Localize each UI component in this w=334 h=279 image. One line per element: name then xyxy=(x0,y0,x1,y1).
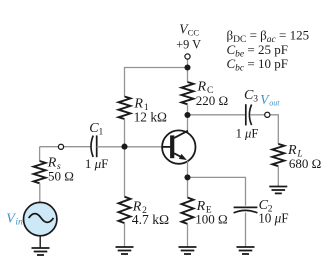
wire: base node down to R2 xyxy=(124,147,126,197)
ground under R2 xyxy=(116,247,134,254)
source Vin (sine source circle) xyxy=(24,202,57,235)
capacitor C1 straight right plate xyxy=(96,135,98,157)
svg-text:+9 V: +9 V xyxy=(176,37,201,51)
sine wave inside Vin xyxy=(29,214,54,223)
svg-text:680 Ω: 680 Ω xyxy=(289,156,321,171)
wire: top rail from R1 branch to VCC junction xyxy=(125,67,188,69)
wire: C1 to base node and on to transistor base xyxy=(97,146,163,148)
wire: R1 top lead xyxy=(124,67,126,97)
resistor RC 220 Ohm xyxy=(182,82,194,104)
wire: RL bottom lead to ground xyxy=(277,166,279,186)
wire: input terminal to Rs corner xyxy=(40,146,59,148)
ground under RE xyxy=(179,247,197,254)
wire: input terminal to C1 xyxy=(64,146,91,148)
wire: R2 bottom to ground xyxy=(124,223,126,247)
ground under Vin xyxy=(32,248,50,255)
transistor emitter stroke with arrow xyxy=(174,153,184,158)
capacitor C2 curved bottom plate xyxy=(234,210,258,213)
resistor RE 100 Ohm xyxy=(182,198,194,224)
wire: emitter node to C2 branch xyxy=(188,177,246,205)
resistor RL 680 Ohm xyxy=(272,144,284,166)
resistor R1 12 kOhm xyxy=(119,97,131,120)
svg-text:1: 1 xyxy=(99,128,104,138)
wire: collector node to transistor collector xyxy=(187,115,189,131)
resistor R2 4.7 kOhm xyxy=(119,197,131,223)
ground under RL xyxy=(269,187,287,194)
svg-text:12 kΩ: 12 kΩ xyxy=(134,110,167,125)
junction node at base xyxy=(121,144,127,150)
transistor base lead xyxy=(162,146,170,148)
svg-text:4.7 kΩ: 4.7 kΩ xyxy=(132,212,169,227)
transistor base bar xyxy=(170,135,174,158)
wire: Vin bottom to ground xyxy=(39,236,41,249)
wire: Rs top lead xyxy=(39,147,41,161)
wire: VCC terminal to top junction xyxy=(187,59,189,67)
resistor Rs 50 Ohm xyxy=(34,161,46,183)
junction node at emitter xyxy=(184,174,190,180)
wire: RC top lead xyxy=(187,68,189,83)
svg-text:3: 3 xyxy=(253,95,258,105)
terminal: Vout open circle xyxy=(265,112,270,117)
terminal: input open circle xyxy=(58,144,63,149)
wire: R1 bottom lead to base node xyxy=(124,119,126,147)
svg-text:CC: CC xyxy=(188,27,200,37)
wire: emitter node down to RE xyxy=(187,177,189,197)
capacitor C2 10uF straight top plate xyxy=(234,206,258,208)
ground under C2 xyxy=(237,247,255,254)
svg-text:1 μF: 1 μF xyxy=(236,126,259,140)
svg-text:100 Ω: 100 Ω xyxy=(195,211,227,226)
wire: C3 to Vout terminal xyxy=(250,114,264,116)
wire: RE bottom to ground xyxy=(187,224,189,247)
wire: emitter to emitter node xyxy=(187,161,189,177)
transistor Q1 circle xyxy=(162,130,195,163)
svg-text:10 μF: 10 μF xyxy=(258,210,288,225)
terminal: VCC open circle xyxy=(185,54,190,59)
wire: Vout terminal to RL top xyxy=(270,115,278,144)
junction node at collector xyxy=(184,112,190,118)
capacitor C3 1uF (straight left plate) xyxy=(245,104,247,125)
wire: RC bottom lead to collector node xyxy=(187,104,189,115)
svg-text:out: out xyxy=(269,98,280,107)
svg-text:50 Ω: 50 Ω xyxy=(48,168,74,183)
svg-text:in: in xyxy=(15,218,23,228)
svg-text:220 Ω: 220 Ω xyxy=(196,93,228,108)
transistor collector stroke xyxy=(174,131,188,138)
capacitor C1 1uF (curved left plate) xyxy=(91,136,93,157)
wire: C2 bottom to ground xyxy=(245,213,247,248)
wire: collector node to C3 xyxy=(188,114,246,116)
junction node at VCC rail xyxy=(184,64,190,70)
capacitor C3 curved right plate xyxy=(249,105,251,126)
wire: Rs bottom lead to Vin source xyxy=(39,183,41,202)
svg-text:1 μF: 1 μF xyxy=(85,156,109,171)
